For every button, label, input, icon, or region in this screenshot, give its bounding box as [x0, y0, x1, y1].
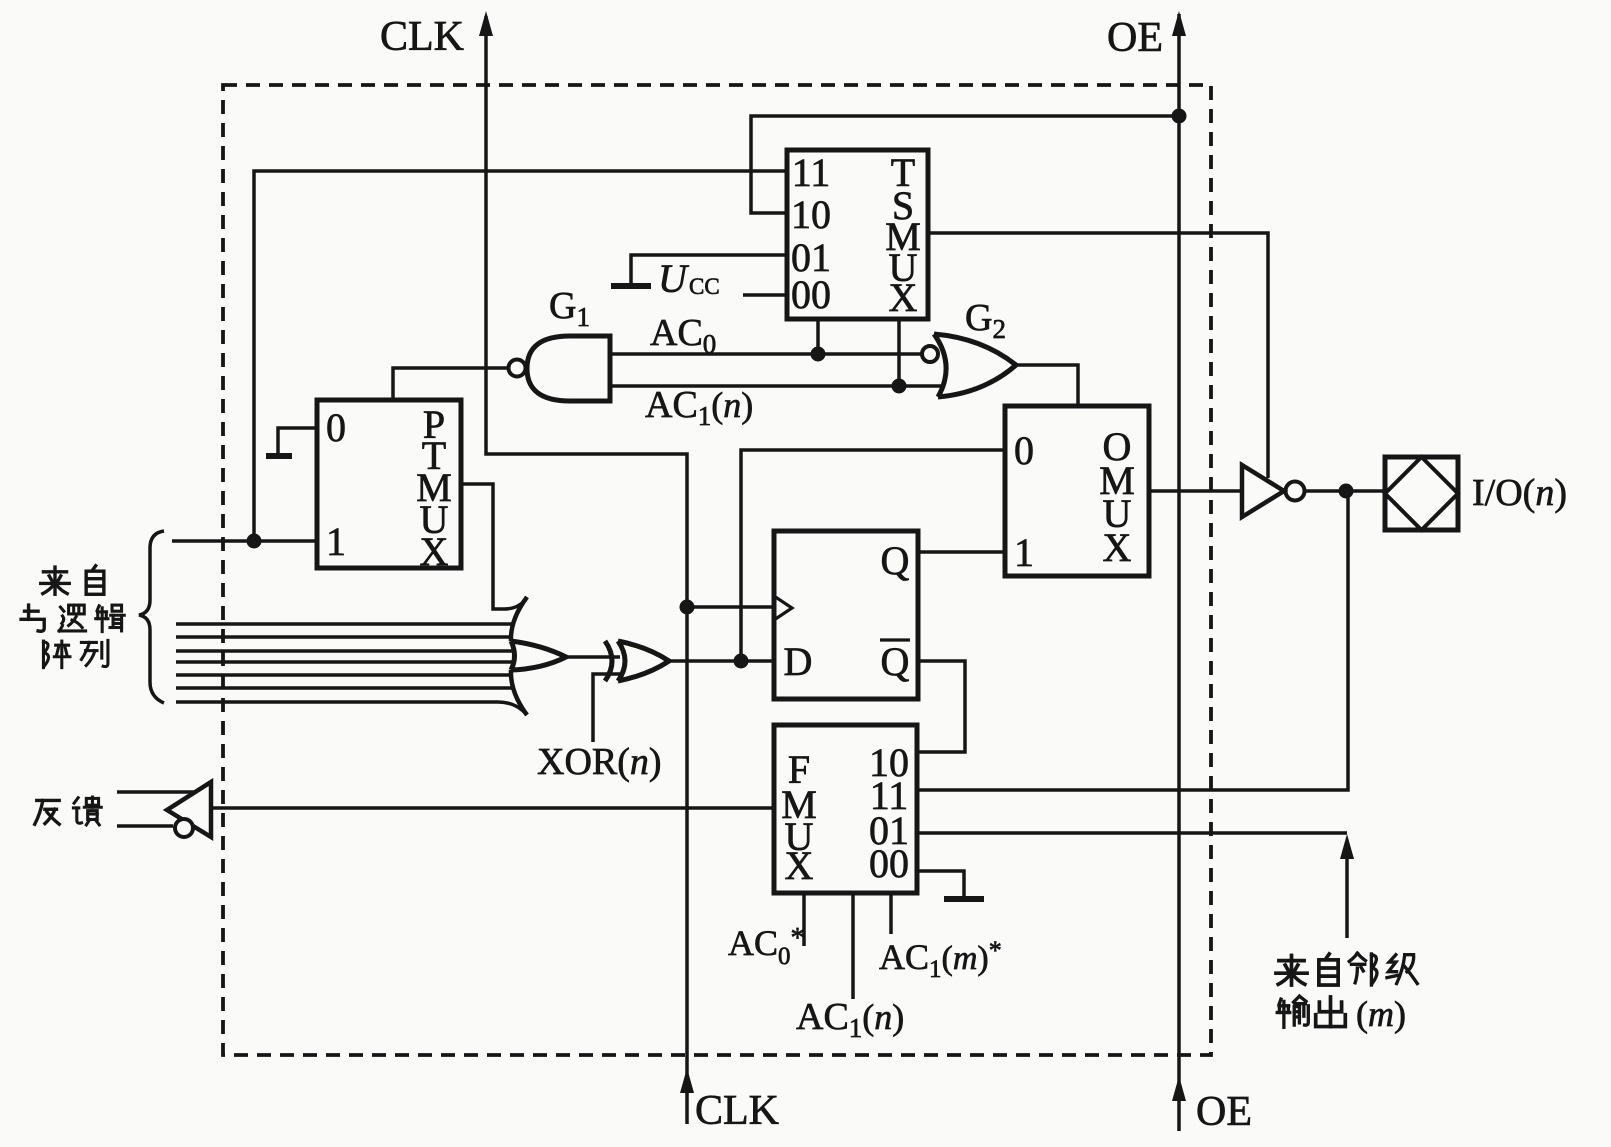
svg-text:CC: CC: [689, 274, 720, 299]
svg-text:11: 11: [792, 150, 831, 195]
svg-text:I/O(n): I/O(n): [1472, 472, 1567, 514]
svg-text:XOR(n): XOR(n): [537, 741, 662, 783]
svg-text:0: 0: [326, 405, 346, 450]
svg-text:1: 1: [1014, 530, 1034, 575]
svg-text:U: U: [658, 256, 690, 301]
svg-text:OE: OE: [1107, 15, 1163, 61]
svg-text:0: 0: [1014, 428, 1034, 473]
svg-text:X: X: [785, 843, 814, 888]
svg-text:X: X: [889, 275, 918, 320]
svg-text:00: 00: [791, 272, 831, 317]
svg-text:00: 00: [869, 841, 909, 886]
svg-text:X: X: [420, 529, 449, 574]
svg-text:OE: OE: [1196, 1089, 1252, 1135]
svg-text:10: 10: [791, 192, 831, 237]
svg-text:CLK: CLK: [380, 14, 464, 60]
svg-text:CLK: CLK: [695, 1088, 779, 1134]
svg-text:1: 1: [326, 519, 346, 564]
svg-text:X: X: [1103, 525, 1132, 570]
svg-text:(m): (m): [1356, 994, 1406, 1034]
svg-text:Q: Q: [881, 538, 910, 583]
svg-text:Q: Q: [881, 639, 910, 684]
svg-text:D: D: [784, 639, 813, 684]
